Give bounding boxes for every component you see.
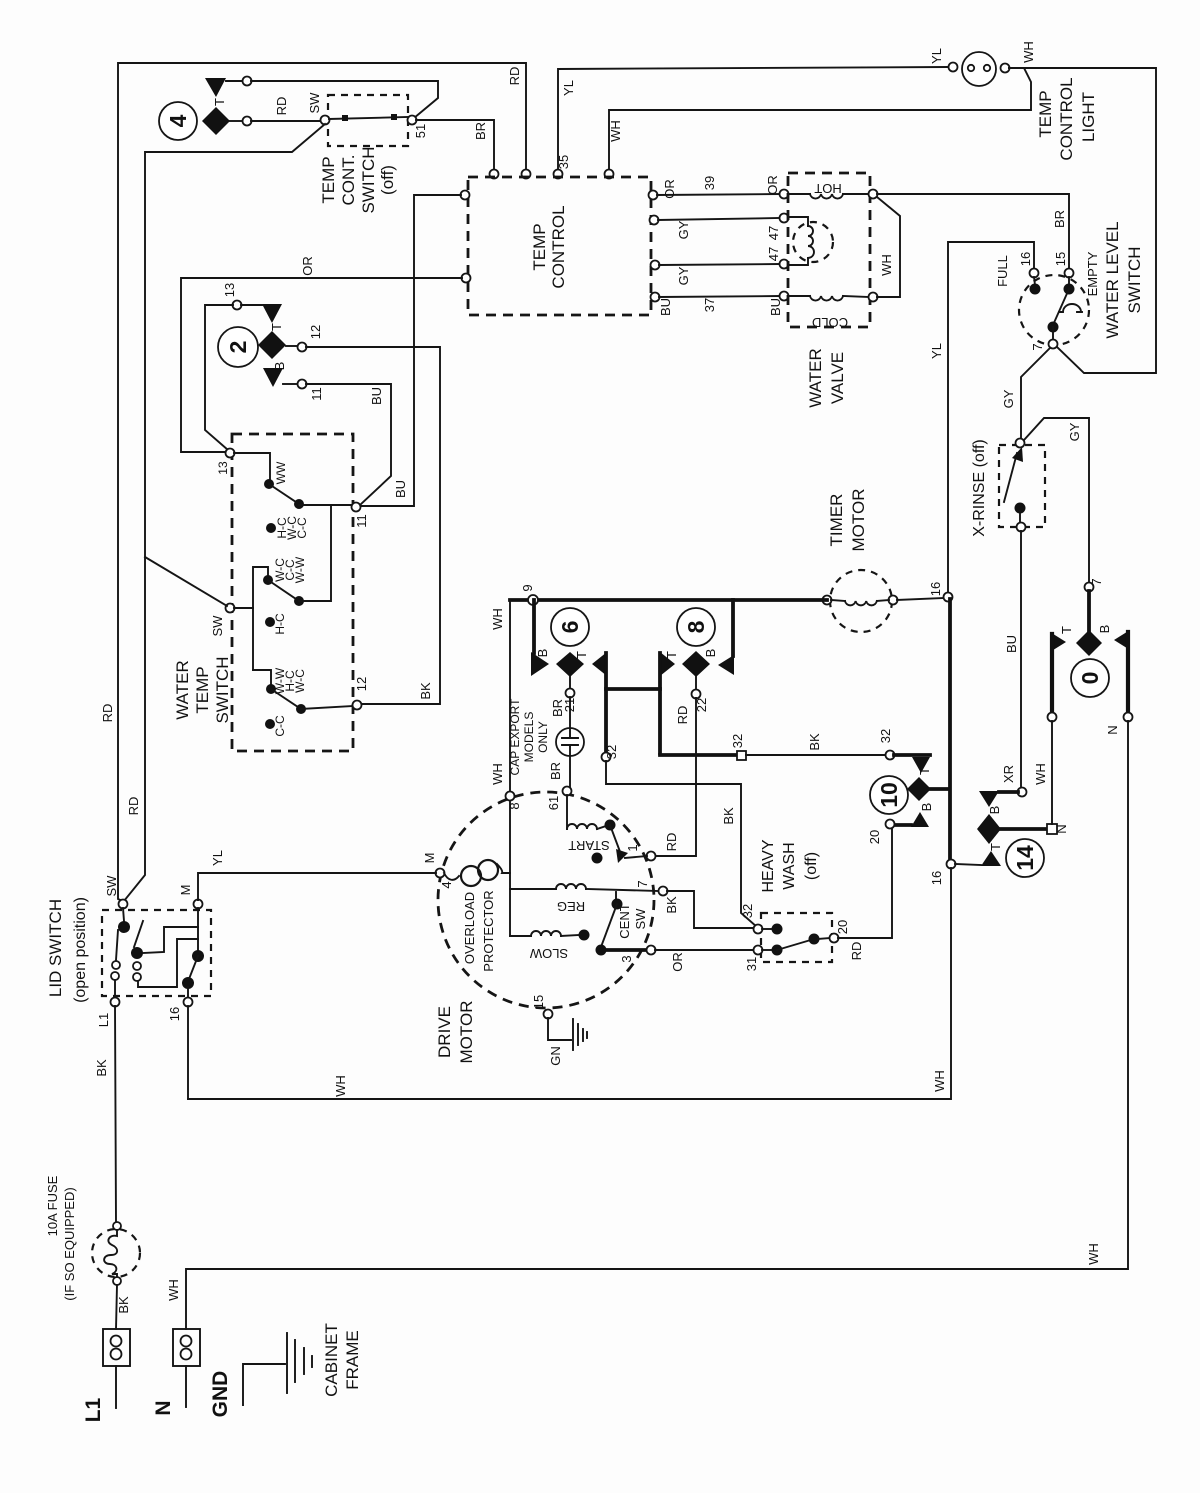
svg-text:16: 16	[929, 871, 944, 885]
circled 2	[218, 327, 258, 367]
motor SLOW winding	[510, 930, 590, 962]
svg-text:CAP EXPORT: CAP EXPORT	[508, 698, 522, 776]
svg-text:TEMP: TEMP	[193, 666, 212, 713]
svg-text:BK: BK	[721, 807, 736, 825]
svg-text:GY: GY	[676, 266, 691, 285]
svg-text:B: B	[919, 803, 934, 812]
svg-text:COLD: COLD	[812, 315, 848, 330]
svg-text:8: 8	[507, 802, 522, 809]
svg-text:M: M	[178, 885, 193, 896]
water valve box	[788, 173, 870, 408]
WTS H-C W-C C-C row	[266, 516, 309, 540]
circled 4	[159, 102, 197, 140]
wire RD drop terminal at temp control	[522, 170, 531, 179]
svg-text:GY: GY	[676, 220, 691, 239]
svg-text:LIGHT: LIGHT	[1079, 92, 1098, 142]
svg-text:13: 13	[222, 283, 237, 297]
svg-text:H-C: H-C	[273, 613, 287, 635]
wire BU 37: temp control to water valve COLD	[651, 292, 789, 317]
wire BR: valve common to water level switch 15	[877, 194, 1069, 269]
WTS terminal SW and pole 2	[145, 505, 331, 670]
WTS terminal 13 and pole 1	[216, 449, 369, 528]
wire RD from SW down to water temp switch and lid switch	[124, 124, 325, 901]
connector 13 (circuit 2)	[205, 283, 282, 450]
svg-text:SW: SW	[307, 92, 322, 114]
svg-text:REG: REG	[557, 899, 585, 914]
svg-text:15: 15	[1053, 252, 1068, 266]
svg-text:WH: WH	[608, 120, 623, 142]
wire YL/16 main vertical down right side	[188, 599, 956, 1099]
svg-text:WH: WH	[166, 1279, 181, 1301]
svg-text:SWITCH: SWITCH	[213, 656, 232, 723]
timer motor	[823, 489, 898, 632]
svg-text:0: 0	[1077, 672, 1103, 685]
connector group circuit 6: triangle B	[531, 600, 550, 676]
svg-text:T: T	[212, 98, 227, 106]
wire RD: heavy wash 20 up to connector 10	[838, 828, 892, 938]
motor terminal 61 and start winding	[546, 787, 647, 864]
svg-text:WATER: WATER	[806, 348, 825, 408]
L1 plug	[82, 1329, 130, 1422]
svg-text:4: 4	[439, 881, 454, 888]
svg-text:7: 7	[1089, 578, 1104, 585]
svg-text:T: T	[269, 323, 284, 331]
wire BU XR: x-rinse to connector 14	[1001, 531, 1027, 797]
water temp switch box	[173, 434, 353, 751]
svg-text:N: N	[1105, 725, 1120, 734]
motor overload protector and M terminal	[422, 853, 510, 972]
wire YL: water level 16 down to timer junction	[928, 242, 1034, 596]
svg-text:C-C: C-C	[273, 715, 287, 737]
svg-text:START: START	[568, 838, 609, 853]
svg-text:WASH: WASH	[781, 842, 798, 889]
svg-text:6: 6	[557, 621, 583, 634]
svg-text:YL: YL	[929, 48, 944, 64]
connector group circuit 8	[664, 600, 734, 724]
svg-text:FRAME: FRAME	[343, 1330, 362, 1390]
svg-text:OR: OR	[670, 952, 685, 972]
svg-text:16: 16	[1018, 252, 1033, 266]
svg-text:L1: L1	[96, 1013, 111, 1027]
wire YL 35: top to temp control	[554, 48, 949, 178]
wire GY upper: temp control to water valve	[650, 214, 789, 241]
svg-text:WH: WH	[879, 254, 894, 276]
svg-text:WH: WH	[333, 1075, 348, 1097]
wire 7 GY to connector 0	[1085, 578, 1105, 631]
svg-text:TIMER: TIMER	[827, 494, 846, 547]
svg-text:T: T	[988, 843, 1003, 851]
svg-text:BK: BK	[418, 682, 433, 700]
connector diamond T (circuit 6)	[556, 651, 589, 698]
wire GY: water level 7 to x-rinse	[1001, 348, 1050, 439]
svg-text:X-RINSE (off): X-RINSE (off)	[971, 439, 988, 537]
svg-text:XR: XR	[1001, 765, 1016, 783]
WTS pole 3 to terminal 12	[253, 667, 369, 737]
svg-text:HEAVY: HEAVY	[760, 839, 777, 892]
svg-text:W-W: W-W	[293, 556, 307, 583]
svg-text:12: 12	[308, 325, 323, 339]
svg-text:EMPTY: EMPTY	[1085, 251, 1100, 296]
svg-text:VALVE: VALVE	[828, 352, 847, 404]
svg-text:BU: BU	[369, 387, 384, 405]
drive motor circle	[435, 792, 654, 1063]
svg-text:OR: OR	[662, 179, 677, 199]
svg-text:B: B	[703, 649, 718, 658]
svg-text:OVERLOAD: OVERLOAD	[462, 892, 477, 964]
svg-text:15: 15	[531, 995, 546, 1009]
capacitor (cap export models only)	[508, 697, 584, 787]
main WH bus to timer	[510, 584, 827, 605]
svg-text:WH: WH	[490, 763, 505, 785]
temp control light label	[1036, 77, 1098, 160]
svg-text:CABINET: CABINET	[322, 1323, 341, 1397]
svg-text:37: 37	[702, 298, 717, 312]
wire GY lower: temp control to water valve	[651, 247, 789, 286]
wire GY: x-rinse to connector 0 T	[1024, 418, 1089, 583]
svg-text:32: 32	[604, 745, 619, 759]
svg-text:35: 35	[556, 155, 571, 169]
svg-text:CONTROL: CONTROL	[1057, 77, 1076, 160]
svg-text:(off): (off)	[378, 165, 397, 195]
wire BK L1 with fuse	[45, 1006, 140, 1329]
svg-text:T: T	[664, 651, 679, 659]
svg-text:WH: WH	[1021, 41, 1036, 63]
svg-text:YL: YL	[561, 80, 576, 96]
wire BK: connector 12 to WTS 12	[306, 347, 440, 704]
svg-text:MOTOR: MOTOR	[849, 489, 868, 552]
svg-text:RD: RD	[849, 942, 864, 961]
connector 32 pair triangles between 6 and 8	[592, 652, 675, 762]
svg-text:WW: WW	[274, 461, 288, 484]
svg-text:11: 11	[354, 514, 369, 528]
svg-text:61: 61	[546, 796, 561, 810]
svg-text:BR: BR	[548, 762, 563, 780]
wire BU: temp control left to WTS 11	[361, 191, 470, 507]
svg-text:SWITCH: SWITCH	[1125, 246, 1144, 313]
svg-text:BU: BU	[1004, 635, 1019, 653]
connector group circuit 14	[955, 791, 1069, 877]
svg-text:GND: GND	[209, 1371, 232, 1418]
svg-text:3: 3	[619, 955, 634, 962]
svg-text:SWITCH: SWITCH	[359, 146, 378, 213]
svg-text:L1: L1	[82, 1397, 105, 1422]
wire BU: connector 11 to WTS 11	[306, 384, 391, 504]
svg-text:4: 4	[165, 114, 191, 127]
connector diamond T 12 (circuit 2)	[258, 323, 323, 359]
svg-text:B: B	[987, 806, 1002, 815]
water valve HOT coil	[788, 181, 878, 199]
svg-text:WH: WH	[932, 1070, 947, 1092]
svg-text:BR: BR	[473, 122, 488, 140]
svg-text:TEMP: TEMP	[530, 223, 549, 270]
svg-text:T: T	[574, 651, 589, 659]
svg-text:TEMP: TEMP	[319, 156, 338, 203]
svg-text:WATER LEVEL: WATER LEVEL	[1103, 221, 1122, 338]
svg-text:YL: YL	[929, 343, 944, 359]
svg-text:RD: RD	[100, 704, 115, 723]
temp control light lamp	[949, 52, 1010, 86]
svg-text:32: 32	[730, 734, 745, 748]
svg-text:WATER: WATER	[173, 660, 192, 720]
svg-text:31: 31	[744, 957, 759, 971]
svg-text:N: N	[152, 1400, 175, 1415]
svg-text:BU: BU	[768, 298, 783, 316]
wire RD 22: connector 8 to motor start 1	[625, 698, 696, 861]
connector group circuit 0	[1048, 625, 1133, 735]
wire BR: 51 to temp control	[416, 120, 499, 179]
svg-text:(IF SO EQUIPPED): (IF SO EQUIPPED)	[62, 1187, 77, 1300]
motor centrifugal switch	[596, 892, 656, 963]
svg-text:20: 20	[867, 830, 882, 844]
wire BK: cent sw 7 to heavy wash 32	[664, 891, 754, 928]
svg-text:B: B	[1097, 625, 1112, 634]
svg-text:10: 10	[876, 782, 902, 808]
heavy wash switch (off)	[740, 839, 864, 971]
svg-text:39: 39	[702, 176, 717, 190]
svg-text:ONLY: ONLY	[536, 721, 550, 753]
svg-text:TEMP: TEMP	[1036, 90, 1055, 137]
svg-text:LID SWITCH: LID SWITCH	[46, 899, 65, 997]
svg-text:OR: OR	[765, 175, 780, 195]
svg-text:WH: WH	[1086, 1243, 1101, 1265]
svg-text:51: 51	[413, 124, 428, 138]
svg-text:WH: WH	[490, 608, 505, 630]
svg-text:MODELS: MODELS	[522, 712, 536, 763]
svg-text:BU: BU	[393, 480, 408, 498]
svg-text:GY: GY	[1067, 422, 1082, 441]
svg-text:YL: YL	[210, 850, 225, 866]
svg-text:W-C: W-C	[293, 669, 307, 693]
svg-text:BK: BK	[94, 1059, 109, 1077]
svg-text:7: 7	[635, 880, 650, 887]
temp control box	[468, 177, 651, 315]
svg-text:2: 2	[225, 341, 251, 354]
wire WH: lid switch 16 to bottom bus	[187, 1006, 189, 1099]
svg-text:14: 14	[1012, 845, 1038, 871]
svg-text:20: 20	[835, 920, 850, 934]
svg-text:B: B	[272, 362, 287, 371]
wire N: connector 0 right down and along bottom	[166, 721, 1128, 1329]
svg-text:12: 12	[354, 677, 369, 691]
svg-text:(off): (off)	[803, 852, 820, 880]
svg-text:MOTOR: MOTOR	[457, 1001, 476, 1064]
wire timer to YL junction	[897, 593, 953, 602]
lid switch terminals and contacts	[96, 900, 204, 1028]
svg-text:32: 32	[740, 904, 755, 918]
connector diamond (circuit 4)	[202, 97, 321, 135]
svg-text:T: T	[917, 767, 932, 775]
svg-text:HOT: HOT	[814, 181, 842, 196]
motor terminal 15 and ground	[531, 995, 587, 1066]
svg-text:RD: RD	[274, 97, 289, 116]
motor REG winding and cent sw line to 7	[510, 880, 668, 914]
svg-text:47: 47	[766, 226, 781, 240]
wire WH jumper between valve commons	[877, 197, 900, 297]
svg-text:GN: GN	[548, 1046, 563, 1066]
wire BK: 32 terminal down to heavy wash 32	[606, 761, 757, 927]
svg-text:8: 8	[683, 620, 709, 633]
svg-text:(open position): (open position)	[72, 897, 89, 1003]
svg-text:PROTECTOR: PROTECTOR	[481, 890, 496, 971]
svg-text:13: 13	[216, 461, 230, 475]
wire WH: lamp to temp control	[605, 41, 1037, 178]
svg-text:DRIVE: DRIVE	[435, 1006, 454, 1058]
wire RD: temp control to top-left corner and down left side to lid switch	[100, 63, 526, 901]
svg-text:BK: BK	[116, 1296, 131, 1314]
wire 32: to square terminal and across to connector 10	[660, 729, 895, 760]
svg-text:16: 16	[167, 1007, 182, 1021]
N plug	[152, 1329, 200, 1416]
svg-text:B: B	[535, 649, 550, 658]
wire OR 39: temp control to water valve HOT	[649, 175, 789, 199]
svg-text:GY: GY	[1001, 389, 1016, 408]
svg-text:32: 32	[878, 729, 893, 743]
water level switch	[995, 221, 1144, 350]
svg-text:C-C: C-C	[295, 517, 309, 539]
wire lamp to water level switch 7 (right side)	[1009, 68, 1156, 373]
svg-text:21: 21	[562, 698, 577, 712]
svg-text:OR: OR	[300, 256, 315, 276]
svg-text:SW: SW	[104, 875, 119, 897]
svg-text:RD: RD	[664, 833, 679, 852]
water valve COLD coil	[788, 293, 878, 331]
svg-text:BR: BR	[1052, 210, 1067, 228]
connector triangle B 11 (circuit 2)	[263, 362, 324, 401]
svg-text:9: 9	[520, 584, 535, 591]
svg-text:CONT.: CONT.	[339, 155, 358, 206]
wire WH: connector 0 left to connector 14 N	[1033, 721, 1052, 824]
svg-text:FULL: FULL	[995, 255, 1010, 287]
svg-text:11: 11	[309, 387, 324, 401]
svg-text:RD: RD	[507, 67, 522, 86]
svg-text:RD: RD	[126, 797, 141, 816]
wire YL: lid switch M to drive motor	[198, 850, 436, 900]
svg-text:CENT: CENT	[617, 903, 632, 938]
temp cont switch (off)	[307, 92, 428, 214]
circled 6	[551, 608, 589, 646]
svg-text:BU: BU	[658, 298, 673, 316]
wire OR: temp control left to WTS 13	[181, 256, 471, 452]
svg-text:SLOW: SLOW	[529, 946, 568, 961]
connector group circuit 10	[867, 755, 948, 844]
svg-text:RD: RD	[675, 706, 690, 725]
svg-text:SW: SW	[633, 908, 648, 930]
svg-text:WH: WH	[1033, 763, 1048, 785]
svg-text:16: 16	[928, 582, 943, 596]
wire OR: cent sw 3 to heavy wash 31	[655, 950, 754, 972]
svg-text:T: T	[1059, 626, 1074, 634]
svg-text:M: M	[422, 853, 437, 864]
svg-text:10A FUSE: 10A FUSE	[45, 1175, 60, 1236]
svg-text:N: N	[1054, 824, 1069, 833]
lid switch box	[46, 875, 211, 1003]
svg-text:CONTROL: CONTROL	[549, 205, 568, 288]
svg-text:BK: BK	[807, 733, 822, 751]
x-rinse switch (off)	[971, 439, 1045, 537]
svg-text:7: 7	[1030, 343, 1045, 350]
connector triangle T (circuit 4)	[205, 77, 438, 119]
svg-text:SW: SW	[210, 615, 225, 637]
water valve mixing solenoid	[788, 217, 833, 265]
svg-text:47: 47	[766, 247, 781, 261]
wire WH drop into drive motor	[490, 600, 522, 936]
ground GND cabinet frame	[209, 1323, 362, 1417]
svg-text:BK: BK	[664, 896, 679, 914]
